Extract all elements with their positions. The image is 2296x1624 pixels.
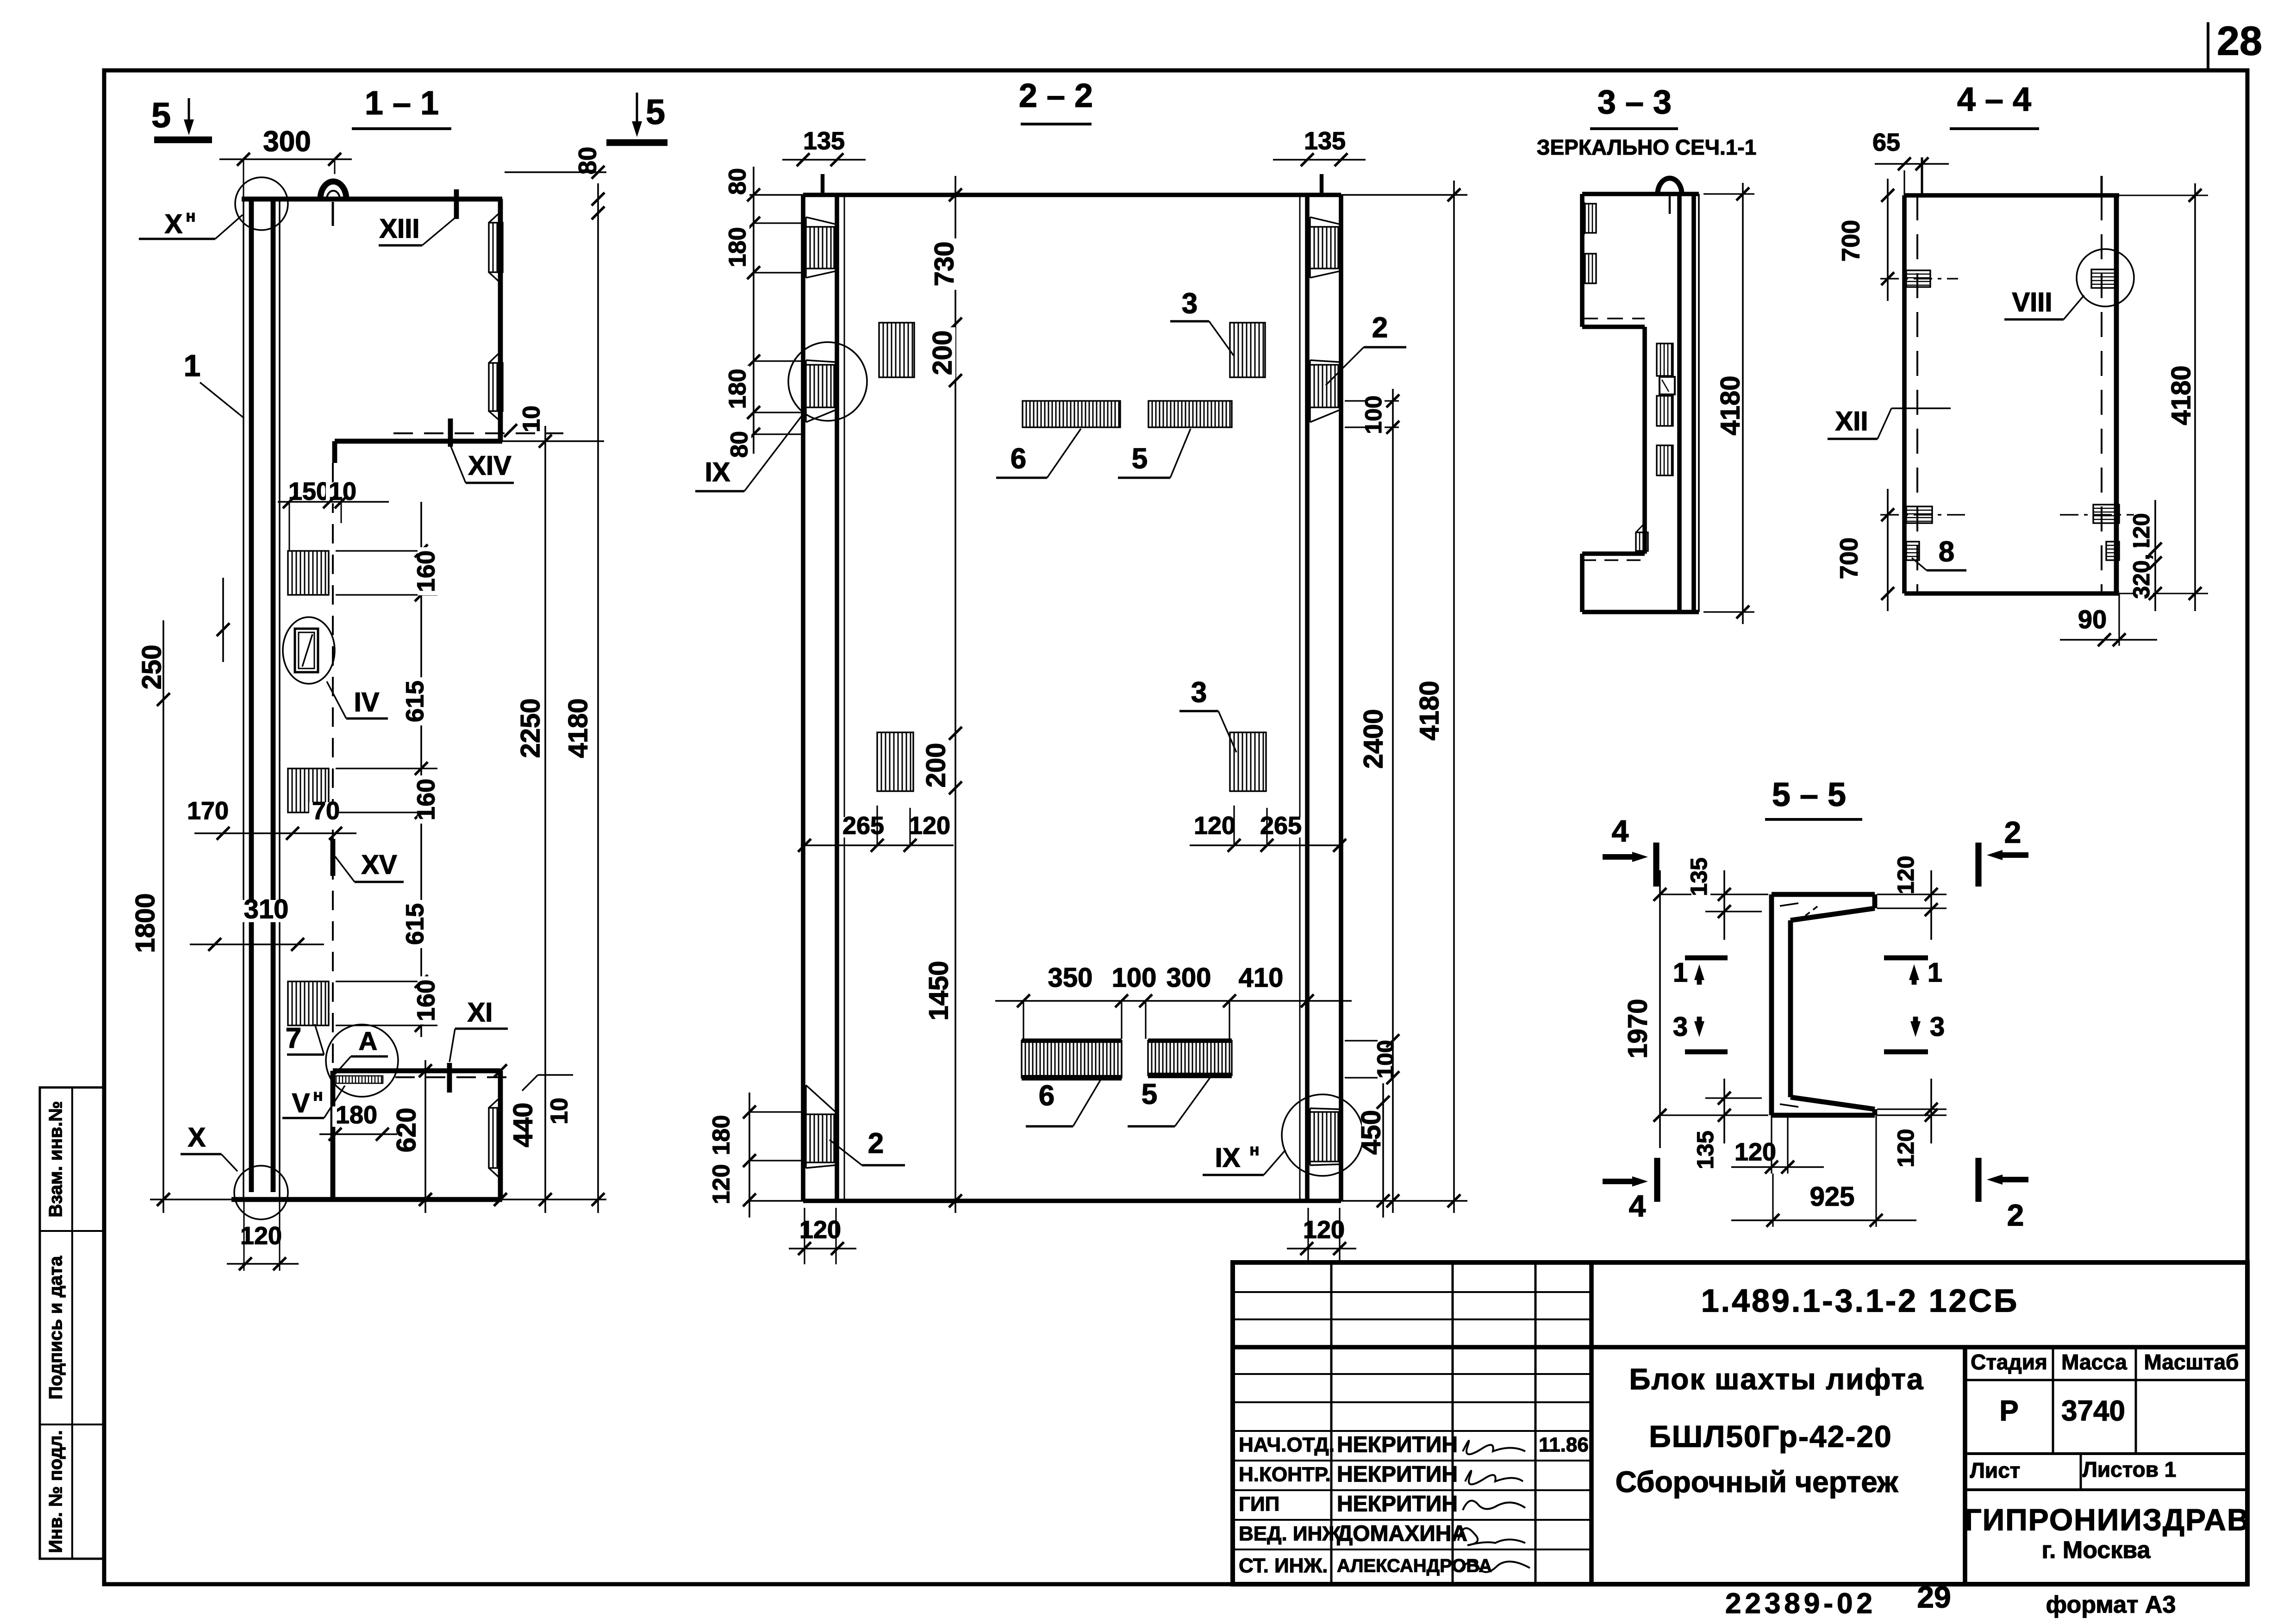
header Стадия [1971,1350,2047,1374]
svg-text:4180: 4180 [1715,375,1745,435]
vertical label Подпись и дата [46,1255,66,1399]
detail circle X bottom [234,1166,288,1219]
label Xн [139,207,243,239]
anchor plate middle 1-1 [288,768,329,812]
section 5-5 title [1765,776,1862,819]
plate in oval [295,629,318,672]
svg-text:4: 4 [1629,1188,1646,1223]
dim 160 c [412,976,440,1024]
dim 120 265 right [1190,806,1346,852]
dim 120 top right 5-5 [1877,853,1947,940]
dim 80 top 2-2 [724,165,751,198]
dim 2400 [1358,389,1399,1213]
cut marker 5 top-left [151,96,212,140]
svg-text:6: 6 [1039,1080,1054,1112]
mid vertical edge 3-3 [1642,327,1647,554]
svg-text:НЕКРИТИН: НЕКРИТИН [1337,1462,1458,1487]
svg-text:1: 1 [1673,957,1688,987]
svg-text:160: 160 [412,980,440,1021]
foot hidden dashed [395,1076,513,1078]
hidden line left 4-4 [1916,195,1918,593]
dim 410 [1235,962,1287,993]
panel bottom edge 4-4 [1904,591,2208,596]
panel top edge 4-4 [1904,193,2208,198]
panel bottom edge 1-1 [231,1197,502,1202]
svg-text:80: 80 [726,431,753,458]
svg-text:300: 300 [263,125,311,157]
svg-text:2: 2 [2007,1198,2024,1232]
svg-text:Сборочный чертеж: Сборочный чертеж [1616,1465,1898,1499]
svg-text:3740: 3740 [2061,1395,2125,1427]
org name [1964,1502,2250,1537]
dim 1800 [130,890,170,1206]
weld strip detail A [333,1076,383,1083]
view marker 3 left [1673,1012,1728,1052]
svg-text:ДОМАХИНА: ДОМАХИНА [1337,1522,1467,1546]
svg-text:4: 4 [1612,813,1629,848]
section 1-1 title [352,85,451,129]
dim 135 top 5-5 [1686,855,1762,940]
dim 100 upper right [1360,393,1386,437]
dim 1450 [923,957,954,1024]
label XI [449,997,508,1093]
svg-text:XII: XII [1835,406,1868,436]
svg-text:Листов 1: Листов 1 [2083,1457,2177,1481]
svg-text:СТ. ИНЖ.: СТ. ИНЖ. [1239,1555,1328,1577]
section 3-3 title [1590,84,1678,129]
label 2 left bottom [830,1127,905,1165]
svg-text:2250: 2250 [515,698,545,758]
detail circle VIII [2077,249,2134,306]
dim 135 left [782,127,866,166]
anchor upper left 4-4 [1880,270,1958,287]
anchor lower right 4-4 [2060,505,2139,523]
dim 135 bottom 5-5 [1692,1079,1762,1173]
dim 180 a 2-2 [724,224,751,270]
svg-text:5 – 5: 5 – 5 [1772,776,1846,813]
svg-text:300: 300 [1167,962,1211,993]
svg-text:А: А [359,1026,377,1056]
svg-text:1 – 1: 1 – 1 [365,85,439,122]
label 2 right upper [1326,312,1406,385]
svg-text:XV: XV [361,849,397,880]
svg-text:IV: IV [354,687,380,717]
label 8 [1912,536,1966,570]
foot top 3-3 [1582,554,1645,560]
left wall inner thin line [844,195,845,1201]
hidden line right 4-4 [2101,195,2103,593]
signature role labels [1239,1434,1341,1577]
svg-text:11.86: 11.86 [1539,1434,1589,1456]
plate 6 lower [1022,1041,1122,1078]
dim 440 [494,1064,538,1206]
svg-text:120: 120 [799,1216,841,1243]
plate 5 lower [1148,1041,1232,1075]
dim 2250 [515,426,552,1213]
section 3-3 subtitle [1537,135,1757,159]
panel bottom 3-3 [1582,610,1699,614]
dim 80 b 2-2 [726,428,753,461]
svg-text:100: 100 [1112,962,1157,993]
svg-text:XI: XI [468,997,493,1027]
channel section 5-5 [1772,894,1875,1115]
svg-text:2 – 2: 2 – 2 [1019,77,1093,114]
document code [1701,1282,2019,1318]
label 3 upper [1170,287,1234,356]
right wall inner edge 2-2 [1305,195,1310,1201]
dim chain line 160-615 [336,502,437,1037]
svg-text:615: 615 [401,681,429,722]
value P [1999,1395,2018,1427]
dim 200 lower [921,740,951,791]
dim chain left lower 2-2 [743,1093,802,1218]
dim 160 b [412,775,440,824]
mid keys 3-3 [1657,344,1675,475]
svg-text:135: 135 [803,127,845,155]
section 2-2 title [1019,77,1093,124]
svg-text:Н.КОНТР.: Н.КОНТР. [1239,1463,1331,1486]
svg-text:НЕКРИТИН: НЕКРИТИН [1337,1492,1458,1517]
column lines 3-3 [1679,194,1699,612]
svg-text:3 – 3: 3 – 3 [1597,84,1672,121]
label XIV [450,418,514,483]
dim 4180 of 4-4 [2166,183,2202,611]
signature names [1337,1433,1492,1576]
dim 730 [929,238,959,290]
dim 120 below left wall [789,1208,856,1264]
svg-text:80: 80 [724,168,751,195]
svg-text:70: 70 [312,797,340,824]
dim 300 [219,125,352,199]
label XII [1828,406,1951,439]
svg-text:XIII: XIII [379,213,419,244]
svg-text:1800: 1800 [130,893,160,953]
svg-text:НЕКРИТИН: НЕКРИТИН [1337,1433,1458,1457]
view marker 3 right [1884,1012,1945,1052]
svg-text:22389-02: 22389-02 [1725,1587,1876,1619]
svg-text:Стадия: Стадия [1971,1350,2047,1374]
svg-text:Блок шахты лифта: Блок шахты лифта [1629,1362,1924,1396]
view marker 1 left [1673,957,1728,987]
anchor upper right 4-4 [2091,269,2117,288]
dim 170 70 [184,797,356,840]
dim 180 left lower [708,1112,735,1158]
bottom edge 2-2 [749,1199,1467,1203]
svg-text:8: 8 [1939,536,1954,568]
plate upper-left 2-2 [879,323,914,377]
right wall inner thin line [1299,195,1301,1201]
header Масштаб [2144,1350,2239,1374]
signatures [1458,1441,1530,1572]
label A [335,1026,388,1074]
svg-text:450: 450 [1356,1110,1386,1155]
svg-text:НАЧ.ОТД.: НАЧ.ОТД. [1239,1434,1335,1456]
svg-text:3: 3 [1673,1012,1688,1042]
svg-text:ЗЕРКАЛЬНО СЕЧ.1-1: ЗЕРКАЛЬНО СЕЧ.1-1 [1537,135,1757,159]
dim 180 foot [319,1101,398,1141]
svg-text:Р: Р [1999,1395,2018,1427]
panel right edge upper 1-1 [498,199,503,441]
svg-text:5: 5 [1142,1078,1157,1110]
loop 3-3 [1658,178,1682,214]
title line 1 [1629,1362,1924,1396]
key recess upper right 2 [489,352,503,421]
left edge 4-4 [1902,195,1907,593]
svg-text:120: 120 [1893,856,1919,894]
wall column outer thin left [243,199,244,1199]
dim 4180 of 3-3 [1703,183,1754,624]
label XV [333,839,404,882]
svg-text:ВЕД. ИНЖ: ВЕД. ИНЖ [1239,1523,1341,1545]
wall column outer thin right [279,199,280,1199]
svg-text:7: 7 [286,1022,301,1054]
svg-text:1970: 1970 [1622,999,1653,1058]
dim 310 [190,894,324,951]
title block grid [1233,1262,2247,1584]
loop stub right 2-2 [1320,174,1323,195]
dim 620 [391,1060,432,1213]
svg-text:3: 3 [1182,287,1198,319]
svg-text:180: 180 [724,369,751,409]
stub left 4-4 [1904,157,1922,195]
svg-text:120: 120 [2128,513,2154,551]
wall column inner thick left [249,199,254,1192]
dim 615 b [401,900,429,948]
dim 4180 of 2-2 [1414,181,1460,1213]
svg-text:90: 90 [2078,605,2107,634]
anchor plate upper 1-1 [288,551,329,595]
svg-text:80: 80 [574,147,601,175]
svg-text:135: 135 [1304,127,1346,155]
dim 10 near step [504,403,545,437]
svg-text:1450: 1450 [923,961,954,1020]
detail circle IX [788,342,867,421]
svg-text:2: 2 [1372,312,1388,344]
svg-text:10: 10 [546,1098,573,1124]
svg-text:4180: 4180 [2166,365,2196,425]
label 1 leader [184,348,244,418]
label X bottom [181,1122,237,1171]
dim 4180 of 1-1 [563,183,605,1213]
dim 265 120 left [798,806,954,852]
dim 100 lower right [1373,1037,1398,1082]
detail circle IXн [1282,1094,1363,1176]
svg-text:Инв. № подл.: Инв. № подл. [46,1430,66,1553]
label IV [327,681,388,718]
svg-text:10: 10 [518,406,545,432]
plate56 upper ext right [1345,401,1399,427]
svg-text:5: 5 [151,96,171,135]
vertical label Инв. № подл. [46,1430,66,1553]
label IX [695,413,804,491]
header Масса [2061,1350,2127,1374]
key recess upper right 1 [489,212,503,283]
key recess 3-3 a [1582,200,1596,237]
dim 135 right [1273,127,1366,166]
lifting loop 1-1 [320,181,346,226]
cut marker 4 top [1603,813,1656,887]
page number 28 [2208,18,2262,70]
dim 150 and 10 [278,477,389,551]
svg-text:н: н [1249,1141,1259,1159]
svg-text:620: 620 [391,1108,421,1153]
svg-text:ГИПРОНИИЗДРАВ: ГИПРОНИИЗДРАВ [1964,1502,2250,1537]
step hidden 3-3 [1582,318,1645,319]
svg-text:135: 135 [1686,857,1712,896]
svg-text:XIV: XIV [468,450,512,481]
plate lower-left 2-2 [877,732,913,791]
svg-text:ГИП: ГИП [1239,1493,1279,1516]
dim 450 [1356,1083,1390,1218]
dim 90 [2060,593,2157,646]
detail circle Xн top [235,177,288,230]
panel top edge 1-1 [242,197,502,202]
label IXн [1203,1141,1285,1175]
svg-text:160: 160 [412,779,440,820]
svg-text:65: 65 [1872,128,1900,156]
plate upper-right 2-2 [1230,323,1265,377]
footer number [1725,1580,1951,1619]
svg-text:730: 730 [929,242,959,287]
step solid 3-3 [1582,325,1645,329]
dim 615 a [401,677,429,725]
dim 180 b 2-2 [724,366,751,412]
svg-text:29: 29 [1917,1580,1951,1614]
footer format [2046,1592,2176,1618]
svg-text:615: 615 [401,903,429,945]
label 3 lower [1179,676,1236,752]
svg-text:БШЛ50Гр-42-20: БШЛ50Гр-42-20 [1649,1419,1892,1453]
key recess foot [489,1097,501,1179]
label V н [282,1086,345,1118]
dim 160 a [412,547,440,595]
dim 120 web bottom [1731,1115,1824,1174]
svg-text:2400: 2400 [1358,709,1388,768]
wall anchor right top [1310,217,1339,278]
wall anchor left top [806,217,835,278]
label VIII [2004,287,2084,319]
svg-text:310: 310 [244,894,289,924]
org city [2042,1537,2151,1564]
dim line 350-100-300-410 [995,994,1352,1039]
label 7 [286,1022,324,1055]
svg-text:120: 120 [1303,1216,1345,1243]
dim 120 bottom 1-1 [227,1199,299,1271]
dim 10 foot [522,1075,573,1127]
label 5 upper [1118,429,1191,478]
svg-text:V: V [292,1088,310,1118]
svg-text:н: н [313,1086,323,1104]
stub right 4-4 [2101,176,2103,195]
svg-text:IX: IX [1215,1143,1241,1173]
view marker 1 right [1884,957,1942,987]
svg-text:28: 28 [2217,18,2262,63]
svg-text:180: 180 [708,1115,735,1156]
svg-text:2: 2 [2004,815,2021,849]
svg-text:X: X [165,209,183,239]
svg-text:6: 6 [1011,443,1026,475]
loop stub left 2-2 [821,174,824,195]
svg-text:5: 5 [1132,443,1148,475]
svg-text:2: 2 [868,1127,884,1159]
foot right edge [498,1071,503,1199]
bottom edge thin extensions [150,1193,606,1206]
left wall inner edge 2-2 [835,195,839,1201]
strip corner vertical [332,441,337,463]
small anchor right [2106,542,2119,560]
svg-text:X: X [188,1122,206,1152]
anchor lower left 4-4 [1880,506,1965,523]
dim 250 [137,578,230,1213]
label 6 lower [1026,1076,1103,1126]
right wall outer edge 2-2 [1339,195,1343,1201]
svg-text:250: 250 [137,645,167,690]
top edge 2-2 [748,193,1467,197]
label Листов 1 [2083,1457,2177,1481]
svg-text:5: 5 [646,93,665,132]
dim chain left 2-2 [747,167,802,454]
dim 80 top right 1-1 [505,144,606,179]
plate lower-right 2-2 [1230,732,1266,791]
panel top edge 3-3 [1582,192,1699,196]
svg-text:120: 120 [1734,1138,1776,1166]
plate 6 upper [1023,401,1120,427]
svg-text:1.489.1-3.1-2 12СБ: 1.489.1-3.1-2 12СБ [1701,1282,2019,1318]
label XIII [379,189,456,245]
dim 200 upper [927,327,957,379]
svg-text:3: 3 [1191,676,1207,708]
svg-text:350: 350 [1048,962,1093,993]
dim 700 upper [1837,179,1894,301]
svg-text:120: 120 [1194,812,1235,839]
cut marker 5 top-right [606,93,668,143]
svg-text:100: 100 [1360,395,1386,434]
dim 65 [1870,128,1949,170]
svg-text:410: 410 [1239,962,1284,993]
wall column inner thick right [271,199,276,1192]
dim 120 left lower [708,1161,735,1207]
foot key 3-3 [1636,523,1648,551]
svg-text:160: 160 [412,550,440,592]
section 4-4 title [1950,81,2039,129]
label 6 upper [996,429,1081,478]
dim 100 mid [1109,962,1160,993]
svg-text:100: 100 [1373,1040,1398,1078]
detail circle A [326,1024,398,1097]
svg-text:АЛЕКСАНДРОВА: АЛЕКСАНДРОВА [1337,1556,1492,1576]
dim 120 below right wall [1287,1208,1356,1264]
wall anchor right bottom [1310,1108,1339,1165]
dim 120 bottom right 5-5 [1877,1079,1947,1171]
detail oval IV [283,617,335,684]
dim 700 lower [1835,489,1894,611]
strip hidden edge dashed [332,463,334,1067]
svg-text:формат А3: формат А3 [2046,1592,2176,1618]
svg-text:4180: 4180 [563,698,593,758]
left wall outer edge 2-2 [801,195,805,1201]
cut marker 2 top [1978,815,2028,887]
foot left edge [331,1071,336,1199]
svg-text:120: 120 [240,1222,282,1249]
svg-text:4 – 4: 4 – 4 [1957,81,2031,118]
svg-text:120: 120 [708,1164,735,1205]
svg-text:Лист: Лист [1970,1458,2021,1482]
label Лист [1970,1458,2021,1482]
plate56 lower ext right [1345,1041,1391,1078]
dim 100 lower ticks [1386,1034,1399,1084]
wall anchor left bottom [806,1085,835,1168]
svg-text:135: 135 [1692,1131,1718,1169]
